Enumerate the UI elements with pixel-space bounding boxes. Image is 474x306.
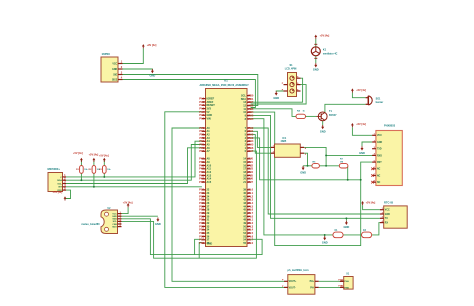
- junction R2/CS1: [93, 186, 95, 188]
- svg-text:+5V [4x]: +5V [4x]: [53, 191, 63, 194]
- svg-text:+5V [4x]: +5V [4x]: [356, 123, 366, 126]
- resistor R4 1k: [296, 114, 306, 118]
- wire net SCL1: [66, 145, 202, 181]
- wire C2 to RTC: [372, 223, 380, 235]
- svg-text:NC: NC: [377, 169, 381, 171]
- junction RTC TX/GND tap: [345, 217, 347, 219]
- resistor R5 10k: [312, 164, 320, 168]
- svg-text:PL0: PL0: [248, 241, 253, 245]
- module U5 PHX8053: [371, 124, 402, 186]
- supply +5V R2: [89, 153, 99, 162]
- svg-text:VOUT+: VOUT+: [289, 281, 297, 283]
- svg-text:PHB: PHB: [338, 286, 343, 288]
- junction opto out2: [307, 165, 309, 167]
- svg-text:PC0: PC0: [199, 241, 205, 245]
- wire C1 to C2: [343, 234, 361, 236]
- svg-text:4N35: 4N35: [281, 140, 287, 143]
- svg-text:GND: GND: [155, 222, 161, 226]
- supply +5V buzzer: [351, 88, 366, 92]
- ground PHX: [359, 146, 365, 155]
- ground opto: [300, 166, 306, 175]
- ic U1 ARDUINO_MEGA_2560: [199, 79, 254, 247]
- svg-text:+5V [4x]: +5V [4x]: [320, 35, 330, 38]
- svg-text:16PIN: 16PIN: [102, 52, 110, 56]
- svg-text:GND: GND: [322, 241, 328, 245]
- svg-text:+5V [4x]: +5V [4x]: [123, 202, 133, 205]
- svg-text:+5V [4x]: +5V [4x]: [99, 155, 109, 158]
- supply +5V PHX: [351, 123, 366, 127]
- wire tap D48: [199, 243, 202, 259]
- svg-text:LCD_4PIN: LCD_4PIN: [285, 68, 297, 71]
- svg-text:ARDUINO_MEGA_2560_REV3_ASSEMBL: ARDUINO_MEGA_2560_REV3_ASSEMBLY: [200, 84, 250, 87]
- transistor T1 BC547: [316, 110, 337, 121]
- svg-text:meteo_bme280: meteo_bme280: [81, 223, 100, 226]
- svg-text:+5V [4x]: +5V [4x]: [89, 153, 99, 156]
- svg-text:+5V [4x]: +5V [4x]: [366, 201, 376, 204]
- junction R1/SCL1: [80, 179, 82, 181]
- wire J1-3 to U1: [123, 75, 258, 106]
- svg-text:U1: U1: [224, 79, 228, 83]
- wire J1-2 to GND: [123, 68, 153, 71]
- junction cap gnd: [324, 234, 326, 236]
- svg-text:GND: GND: [320, 130, 326, 134]
- ground bme280: [155, 218, 161, 227]
- svg-text:RTC-05: RTC-05: [384, 200, 394, 204]
- wire net TXD to PHX node: [251, 138, 361, 180]
- svg-text:PK7: PK7: [199, 180, 205, 184]
- svg-text:A15: A15: [207, 181, 212, 184]
- wire gnd tap RTC: [345, 218, 347, 220]
- svg-text:PHX8053: PHX8053: [384, 124, 396, 128]
- svg-text:PF7: PF7: [199, 149, 204, 153]
- wire R2 top: [93, 160, 95, 166]
- wire +5V to PHX VCC: [352, 127, 372, 135]
- junction TXD/RST riser: [360, 179, 362, 181]
- ground J1: [150, 69, 156, 78]
- svg-text:PHA: PHA: [344, 280, 349, 283]
- svg-text:GND: GND: [385, 214, 390, 216]
- svg-text:PJ7: PJ7: [248, 180, 253, 184]
- junction node R5/R7: [325, 165, 327, 167]
- wire R1 bottom: [80, 173, 82, 180]
- capacitor C2 100n: [362, 232, 372, 238]
- svg-text:SDA: SDA: [112, 218, 117, 221]
- wire net SDA1: [66, 141, 202, 177]
- svg-text:GND: GND: [377, 142, 382, 144]
- svg-text:VCC: VCC: [112, 63, 117, 65]
- wire S1 to GND: [276, 90, 283, 92]
- wire pH- to J3: [319, 286, 344, 288]
- wire net opto in2: [251, 135, 271, 154]
- wire MIC +5V hook: [65, 190, 71, 198]
- connector U2 meteo_bme280: [81, 208, 121, 233]
- svg-text:PHB: PHB: [344, 287, 349, 289]
- wire net AOUT- (U1 to pH amp): [165, 112, 284, 288]
- wire S1-B to U1: [251, 85, 307, 104]
- wire net opto in1: [251, 131, 271, 147]
- wire opto out1 drop: [304, 147, 326, 165]
- svg-text:VOUT-: VOUT-: [289, 287, 296, 289]
- supply +5V bme280: [123, 202, 133, 208]
- connector J3 pH probe: [338, 272, 353, 289]
- svg-text:+5V [4x]: +5V [4x]: [73, 152, 83, 155]
- wire cap gnd stub: [324, 235, 326, 236]
- wire J1-1 to +9V: [123, 48, 144, 63]
- connector J1 16PIN: [101, 52, 123, 82]
- svg-text:+5V [4x]: +5V [4x]: [356, 89, 366, 92]
- ground S1: [273, 91, 279, 100]
- svg-text:NC: NC: [377, 182, 381, 184]
- svg-text:GND: GND: [313, 68, 319, 72]
- svg-text:+9V [4x]: +9V [4x]: [147, 44, 157, 47]
- module U7 ph amplifier: [282, 269, 319, 294]
- wire tap D49: [195, 239, 202, 254]
- wire R3 top: [103, 160, 105, 166]
- svg-text:PA6: PA6: [199, 116, 205, 120]
- wire net RST (long bottom run): [251, 112, 373, 246]
- motor K1 ventilator: [311, 44, 337, 58]
- svg-text:RXD: RXD: [377, 155, 382, 157]
- resistor R1 10k: [80, 166, 84, 174]
- wire +5V to RTC VCC: [363, 205, 380, 210]
- wire K1 to gnd: [315, 56, 317, 63]
- junction RXD node: [325, 154, 327, 156]
- svg-text:buzzer: buzzer: [376, 101, 384, 104]
- svg-text:VCC: VCC: [385, 210, 390, 212]
- wire net AOUT+ (U1 to pH amp): [172, 128, 284, 281]
- supply +5V R1: [73, 152, 83, 162]
- wire gnd stub: [302, 165, 304, 168]
- wire R1 top: [80, 160, 82, 166]
- wire R3 bottom: [103, 173, 105, 177]
- module U6 RTC-05: [380, 200, 407, 228]
- wire R5 to R7: [319, 165, 339, 167]
- svg-text:GND: GND: [150, 74, 156, 78]
- svg-text:SG1: SG1: [376, 97, 381, 100]
- wire PHX RXD to node: [326, 154, 376, 156]
- svg-text:GND: GND: [359, 151, 365, 155]
- svg-text:TX: TX: [385, 218, 388, 220]
- svg-text:SIG: SIG: [113, 74, 117, 76]
- svg-text:ventilator 4C: ventilator 4C: [323, 53, 338, 56]
- svg-text:TXD: TXD: [377, 149, 382, 151]
- supply +5V MIC: [53, 191, 67, 201]
- wire T1 emitter to gnd: [322, 121, 324, 125]
- resistor R3 10k: [103, 166, 107, 174]
- svg-text:PH5: PH5: [248, 117, 254, 121]
- wire R2 bottom: [93, 173, 95, 187]
- svg-text:GND: GND: [344, 225, 350, 229]
- wire bme280 SDA to U1: [122, 219, 263, 255]
- svg-text:SCL: SCL: [57, 183, 62, 185]
- svg-text:GND: GND: [300, 170, 306, 174]
- wire net cap line: [251, 119, 333, 235]
- svg-text:GND: GND: [112, 69, 117, 71]
- junction R3/SDA1: [103, 176, 105, 178]
- supply +5V RTC: [361, 201, 375, 205]
- switch S1 LCD_4PIN: [282, 64, 301, 96]
- wire S1-A to U1: [251, 78, 303, 102]
- wire J1-4 to U1: [123, 80, 256, 108]
- svg-text:MIC5060+: MIC5060+: [48, 167, 61, 171]
- wire T1 collector to buzzer: [325, 104, 366, 112]
- svg-text:SIG2: SIG2: [112, 79, 118, 81]
- opto-isolator U3 4N35: [271, 137, 307, 158]
- svg-text:PH+: PH+: [310, 281, 315, 283]
- svg-text:PH-: PH-: [310, 287, 314, 289]
- svg-text:GND: GND: [207, 244, 212, 246]
- svg-text:NC: NC: [377, 175, 381, 177]
- wire pH+ to J3: [319, 280, 344, 282]
- wire net RX to RTC: [251, 128, 380, 214]
- junction R7/TXD: [347, 179, 349, 181]
- wire gnd to R5: [303, 165, 312, 167]
- buzzer SG1: [366, 96, 384, 105]
- supply +5V K1: [314, 35, 329, 39]
- wire net TX to RTC: [251, 115, 380, 218]
- svg-text:PH7: PH7: [248, 149, 254, 153]
- wire R7 drop to TXD net: [347, 166, 349, 180]
- svg-text:RX: RX: [385, 223, 389, 225]
- capacitor C1 100n: [333, 232, 343, 238]
- svg-text:SDO: SDO: [112, 226, 117, 228]
- ground T1: [320, 125, 326, 134]
- svg-text:1M: 1M: [340, 162, 343, 164]
- wire +5V to buzzer: [352, 93, 365, 98]
- wire J3 stubs: [340, 280, 344, 282]
- resistor R7 1M: [339, 164, 348, 168]
- wire PHX GND: [362, 142, 372, 146]
- wire +5V to K1: [315, 39, 317, 47]
- wire net INT1: [66, 148, 202, 184]
- resistor R2 10k: [92, 166, 96, 174]
- svg-text:GND: GND: [273, 96, 279, 100]
- svg-text:RST: RST: [377, 162, 382, 164]
- wire net base R4 right: [306, 115, 317, 117]
- wire bme280 VCC: [122, 207, 129, 213]
- svg-text:SDA: SDA: [57, 179, 62, 182]
- wire net CS1: [66, 186, 202, 188]
- svg-text:BC547: BC547: [329, 114, 337, 117]
- wire net base R4 feed: [251, 109, 296, 117]
- svg-text:ph_mv2066c_bcm: ph_mv2066c_bcm: [288, 269, 310, 272]
- wire bme280 GND: [122, 215, 158, 217]
- ground RTC tap: [344, 221, 350, 230]
- ic U4 MIC5060: [48, 167, 67, 192]
- wire opto out2 drop: [304, 153, 307, 166]
- svg-text:VCC: VCC: [377, 135, 382, 137]
- ground caps: [322, 236, 328, 245]
- supply +5V R3: [99, 155, 109, 162]
- wire bme280 SCL to U1: [122, 151, 257, 258]
- svg-text:VIN: VIN: [207, 117, 211, 120]
- ground K1: [313, 63, 319, 71]
- supply +9V J1: [142, 44, 157, 48]
